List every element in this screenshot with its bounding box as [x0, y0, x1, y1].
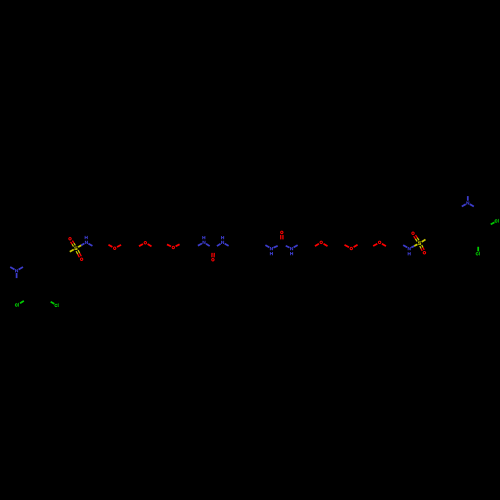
atom N2 (N)	[85, 236, 88, 244]
atom S2 (S)	[418, 242, 421, 245]
bond O2-CH2 left	[108, 245, 112, 247]
bond N8-CH2 chain	[462, 204, 466, 206]
bond N8-ring	[470, 204, 474, 206]
atom O2 (O)	[113, 246, 116, 250]
bond O4-CH2 right	[176, 244, 180, 246]
bond N5-C(=O)	[273, 246, 277, 248]
bond O9-CH2 right	[382, 244, 386, 246]
bond N6-C(=O)	[286, 246, 290, 248]
bond S2-CH2	[422, 240, 426, 242]
bond N4-CH2	[225, 244, 229, 246]
bond N3-CH2	[198, 244, 202, 246]
atom O10 (O)	[411, 231, 414, 235]
bond O8-CH2 right	[354, 245, 358, 247]
bond Cl4-ring	[477, 247, 479, 252]
atom O6 (O)	[280, 231, 283, 235]
atom N4 (N)	[221, 236, 224, 244]
atom N8 (N)	[466, 201, 469, 204]
atom N7 (N)	[408, 247, 411, 255]
atom Cl4 (Cl)	[476, 252, 480, 256]
bond C1=O urea1	[212, 253, 214, 258]
atom Cl1 (Cl)	[15, 303, 19, 307]
atom Cl3 (Cl)	[495, 219, 499, 223]
atom O7 (O)	[320, 241, 323, 244]
bond N8-CH3	[467, 196, 469, 201]
bond N4-C(=O)	[217, 244, 221, 246]
atom N3 (N)	[202, 236, 205, 244]
bond O2-CH2 right	[117, 245, 121, 247]
bond N1-CH3	[10, 267, 14, 270]
atom N1 (N)	[15, 269, 18, 272]
atom N5 (N)	[270, 247, 273, 255]
bond O7-CH2 left	[315, 244, 319, 246]
bond S1-CH2	[70, 250, 74, 252]
atom O1b (O)	[80, 257, 83, 261]
atom O9 (O)	[378, 241, 381, 244]
atom O3 (O)	[144, 241, 147, 245]
bond O8-CH2 left	[345, 245, 349, 247]
bond Cl3-ring	[491, 222, 495, 224]
bond N2-CH2	[88, 244, 92, 246]
atom O11 (O)	[423, 251, 426, 255]
bond O4-CH2 left	[167, 244, 171, 246]
bond N7-CH2	[403, 245, 407, 247]
bond Cl1-ring	[20, 301, 24, 303]
atom O4 (O)	[172, 246, 175, 250]
bond O3-CH2 left	[139, 244, 143, 246]
bond S1=O upper	[71, 241, 76, 247]
atom O1a (O)	[68, 237, 71, 241]
bond Cl2-ring	[51, 302, 55, 304]
bond N6-CH2	[294, 245, 298, 247]
bond N1-CH2 benzyl	[16, 273, 18, 278]
atom O5 (O)	[211, 258, 214, 262]
atom S1 (S)	[74, 247, 77, 250]
bond N3-C(=O)	[206, 244, 210, 246]
bond N1-CH2 chain	[19, 267, 23, 270]
bond O3-CH2 right	[148, 244, 152, 246]
bond O9-CH2 left	[373, 244, 377, 246]
bond O7-CH2 right	[324, 244, 328, 246]
bond S2=O upper	[414, 235, 419, 242]
bond S1=O lower	[76, 250, 81, 257]
bond C2=O urea2	[281, 235, 283, 240]
atom O8 (O)	[350, 247, 353, 251]
atom Cl2 (Cl)	[54, 303, 58, 307]
bond N5-CH2	[265, 245, 269, 247]
bond S1-N2	[78, 244, 84, 248]
bond S2=O lower	[420, 245, 424, 251]
bond N7-S2	[411, 244, 417, 247]
atom N6 (N)	[290, 247, 293, 255]
